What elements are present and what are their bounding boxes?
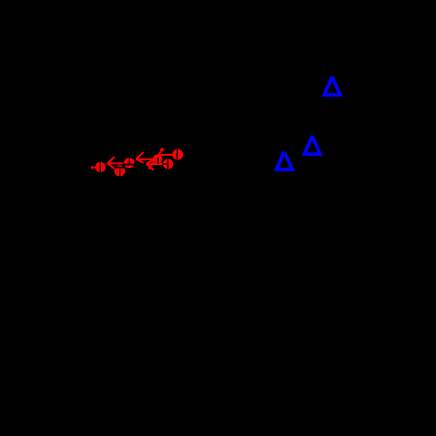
arrow A3 (agent C5 velocity, pointing left) <box>146 160 163 171</box>
landmark T1 (blue triangle) <box>324 77 340 95</box>
agent C4 (red circle) <box>153 154 162 163</box>
agent C4 heading line (black vertical lower half) <box>157 157 159 163</box>
arrow A5 (agent C6 velocity, pointing left) <box>158 154 173 156</box>
agent C3 heading lines (black inverted T) <box>124 164 135 166</box>
arrow A4 (diagonal, pointing up-right) <box>149 148 163 169</box>
agent C5 (red circle) <box>163 159 173 169</box>
agent C1 (red circle) <box>95 162 105 172</box>
arrow A1 (agent C3 velocity, pointing left) <box>108 157 124 169</box>
arrow A0 (agent C1 velocity, short, pointing left) <box>91 167 96 169</box>
landmark T3 (blue triangle) <box>276 151 292 169</box>
agent C5 heading lines (black vertical + left arm) <box>163 159 168 170</box>
arrow A2 (agent C4 velocity, pointing left) <box>136 152 154 163</box>
agent C3 (red circle) <box>124 158 135 169</box>
agent C2 heading lines (black T) <box>114 167 125 169</box>
landmark T2 (blue triangle) <box>304 136 320 154</box>
agent C6 (red circle) <box>172 149 183 160</box>
agent C2 (red circle) <box>114 165 125 176</box>
agent C6 heading line (black vertical) <box>176 149 177 160</box>
agent C1 heading line (black vertical) <box>99 162 101 173</box>
